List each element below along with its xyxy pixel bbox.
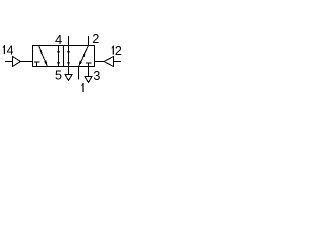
- svg-text:4: 4: [7, 43, 14, 57]
- blocked port T right: [86, 63, 92, 67]
- arrowhead right diagonal upper: [84, 54, 85, 56]
- svg-text:3: 3: [93, 69, 100, 83]
- valve body outline: [33, 46, 95, 67]
- svg-text:5: 5: [55, 69, 62, 83]
- flow diagonal left square (1-4): [39, 46, 48, 67]
- arrowhead line C lower: [67, 62, 70, 65]
- pilot triangle 14: [13, 57, 21, 67]
- digit 1 glyph of label 14: [3, 45, 5, 54]
- flow line C (4-5 path, right square) with port 4 stub: [68, 36, 70, 67]
- flow line A (2-3 path, left square): [58, 46, 60, 67]
- arrowhead left diagonal lower: [45, 61, 46, 64]
- pilot line 14 left: [5, 61, 33, 63]
- position divider: [63, 46, 65, 67]
- svg-text:4: 4: [55, 32, 62, 47]
- port 1 stub: [78, 67, 80, 80]
- exhaust triangle port 3: [85, 77, 92, 83]
- pilot line 12 right: [95, 61, 122, 63]
- arrowhead line A upper: [57, 51, 60, 54]
- port 3 stub: [88, 67, 90, 77]
- pilot triangle 12: [104, 57, 114, 67]
- blocked port T left: [34, 62, 40, 67]
- arrowhead left diagonal upper: [41, 50, 42, 53]
- label 1 (port 1): [81, 83, 83, 92]
- arrowhead right diagonal lower: [79, 61, 82, 63]
- port 5 stub: [68, 67, 70, 75]
- arrowhead line C upper: [67, 51, 70, 54]
- digit 1 glyph of label 12: [112, 46, 114, 55]
- svg-text:2: 2: [115, 44, 122, 58]
- exhaust triangle port 5: [65, 75, 72, 81]
- arrowhead line A lower: [57, 62, 60, 65]
- port 2 stub: [88, 36, 90, 46]
- flow diagonal right square (1-2): [79, 46, 89, 67]
- svg-text:2: 2: [92, 32, 99, 46]
